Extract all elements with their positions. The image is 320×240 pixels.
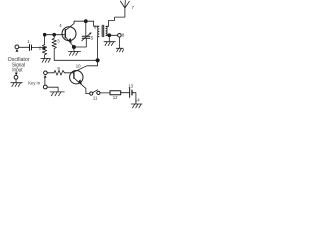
wire IN1 to C1 (19, 46, 29, 48)
node A (43, 33, 47, 37)
svg-text:8: 8 (122, 33, 125, 38)
resistor R3 (52, 35, 56, 61)
transformer T1 primary winding (98, 26, 99, 36)
wire rail to transformer primary top (94, 21, 99, 26)
transistor Q1 base bar (64, 30, 66, 38)
transistor Q1 collector (65, 21, 74, 30)
ground below R2 (41, 58, 51, 62)
svg-text:1: 1 (27, 39, 30, 44)
ground below E (68, 51, 80, 55)
svg-text:13: 13 (128, 83, 133, 88)
battery 13 (130, 88, 132, 98)
svg-text:14: 14 (135, 98, 140, 103)
ground below IN2 (11, 79, 22, 86)
terminal IN2 (input ground) (14, 75, 18, 79)
wire arrow to terminal K2 (44, 78, 46, 86)
node B (52, 33, 56, 37)
ground below K2 wire (50, 92, 64, 96)
wire K1 to R9 (47, 72, 53, 74)
transistor Q2 (10) circle (70, 71, 83, 84)
wire R3 bottom to node J2 (54, 59, 97, 61)
svg-text:5: 5 (91, 36, 94, 41)
trimmer capacitor C5 plates (82, 36, 90, 38)
ground below terminal 8 (116, 37, 123, 52)
transistor Q2 emitter (74, 78, 90, 94)
svg-text:7: 7 (132, 5, 135, 10)
trimmer C5 arrow (82, 33, 91, 41)
switch S1 throw (97, 91, 100, 94)
oscillator input text (8, 57, 30, 73)
arrow pointing up at K1 (44, 75, 47, 78)
wire box to battery 13 (121, 92, 130, 94)
transformer core (102, 25, 104, 36)
wire battery to ground 14 (132, 93, 136, 104)
terminal IN1 (oscillator signal input) (15, 45, 19, 49)
transistor Q1 emitter (65, 37, 74, 47)
terminal 8 (118, 34, 122, 38)
node D (107, 33, 111, 37)
node J2 (96, 58, 100, 62)
svg-text:4: 4 (59, 23, 62, 28)
terminal K2 (43, 85, 47, 89)
transistor Q1 (4) circle (62, 27, 76, 41)
node E (emitter junction) (72, 45, 76, 49)
antenna symbol (121, 0, 130, 8)
resistor R9 (53, 70, 65, 75)
wire E right to trimmer C5 bottom (74, 38, 86, 47)
transformer primary bottom lead to J2 (98, 37, 99, 61)
wire switch to box 12 (100, 92, 110, 94)
svg-text:12: 12 (113, 95, 118, 100)
wire R9 to Q2 base (65, 72, 74, 74)
secondary bottom lead to node D (106, 34, 109, 36)
wire E down to ground (73, 47, 75, 51)
switch S1 pole (90, 92, 93, 95)
capacitor C1 (30, 45, 32, 51)
transformer T1 secondary winding (106, 26, 107, 35)
secondary top lead to antenna (106, 8, 125, 26)
wire D to terminal 8 (109, 34, 117, 36)
wire node C down to trimmer top (85, 21, 87, 36)
transistor Q2 collector (74, 60, 98, 72)
Q2 emitter arrowhead (78, 79, 82, 84)
terminal K1 (key input) (44, 71, 48, 75)
box 12 (110, 91, 121, 95)
svg-text:Input: Input (12, 67, 23, 73)
svg-text:9: 9 (57, 66, 60, 71)
svg-text:11: 11 (93, 96, 98, 101)
node C on top rail (84, 19, 88, 23)
Q1 emitter arrowhead (68, 38, 72, 43)
wire base rail A to B to Q1 base (45, 34, 66, 36)
svg-text:Key In: Key In (28, 80, 40, 86)
resistor R2 (42, 45, 46, 59)
wire J1 up to node A (44, 35, 46, 45)
switch arm (93, 90, 98, 93)
arrow pointing down at IN2 (15, 73, 18, 76)
wire K2 to ground (47, 87, 58, 92)
svg-text:6: 6 (94, 25, 97, 30)
svg-text:2: 2 (39, 46, 42, 51)
svg-text:3: 3 (57, 39, 60, 44)
arrow pointing up at IN1 (16, 49, 19, 52)
svg-text:10: 10 (76, 63, 81, 68)
top rail (74, 20, 94, 22)
wire C1 to node J1 (32, 47, 43, 49)
ground 14 (131, 104, 142, 108)
transistor Q2 base bar (73, 71, 75, 78)
node J1 (43, 47, 46, 50)
ground below node D (104, 35, 115, 45)
